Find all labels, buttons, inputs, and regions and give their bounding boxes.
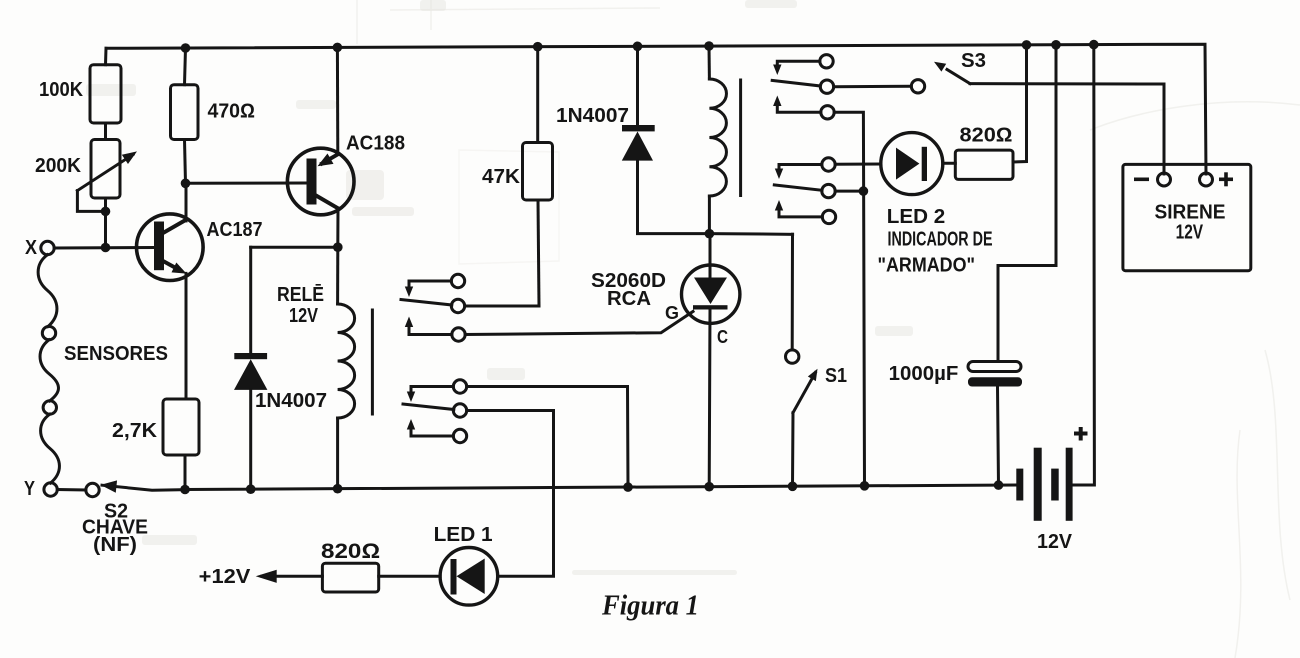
svg-text:LED 2: LED 2 [887,206,946,228]
svg-text:12V: 12V [1176,222,1204,244]
svg-text:S3: S3 [961,50,986,72]
svg-text:RCA: RCA [607,288,651,310]
svg-text:SENSORES: SENSORES [64,343,168,365]
svg-text:12V: 12V [289,305,319,327]
svg-text:1N4007: 1N4007 [556,105,629,127]
svg-text:AC187: AC187 [207,219,263,241]
svg-text:LED 1: LED 1 [434,524,493,546]
svg-text:2,7K: 2,7K [112,420,158,442]
svg-text:S1: S1 [825,365,847,387]
svg-text:AC188: AC188 [346,133,405,155]
svg-text:47K: 47K [482,166,521,188]
svg-text:+12V: +12V [199,566,251,588]
svg-text:200K: 200K [35,155,82,177]
svg-text:1N4007: 1N4007 [255,390,327,412]
svg-text:820Ω: 820Ω [321,540,380,563]
svg-text:12V: 12V [1037,531,1073,553]
svg-text:"ARMADO": "ARMADO" [878,255,976,277]
svg-text:X: X [25,237,38,259]
svg-text:820Ω: 820Ω [960,125,1013,147]
svg-text:RELĒ: RELĒ [277,284,324,306]
svg-text:470Ω: 470Ω [208,101,256,123]
svg-text:C: C [717,327,728,347]
svg-text:G: G [665,303,679,323]
svg-text:(NF): (NF) [93,534,137,556]
svg-text:Figura 1: Figura 1 [601,590,699,622]
svg-text:INDICADOR DE: INDICADOR DE [888,229,993,251]
svg-text:1000µF: 1000µF [889,363,959,385]
svg-text:Y: Y [24,478,36,500]
svg-text:SIRENE: SIRENE [1155,202,1226,224]
svg-text:100K: 100K [39,79,84,101]
